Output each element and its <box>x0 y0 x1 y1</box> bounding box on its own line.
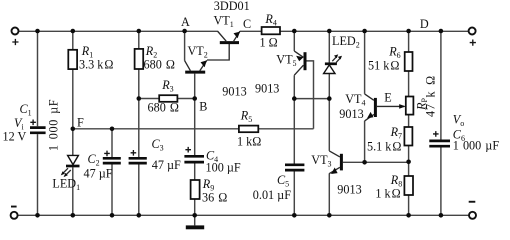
svg-text:1 000 µF: 1 000 µF <box>46 99 60 151</box>
svg-text:1 k Ω: 1 k Ω <box>375 187 400 201</box>
svg-text:LED2: LED2 <box>332 34 360 50</box>
svg-text:3DD01: 3DD01 <box>214 0 250 13</box>
svg-text:47 µF: 47 µF <box>84 166 113 180</box>
svg-text:1 Ω: 1 Ω <box>260 36 278 50</box>
svg-text:F: F <box>77 115 84 129</box>
svg-text:D: D <box>420 17 429 31</box>
svg-text:12 V: 12 V <box>3 130 27 144</box>
svg-text:0.01 µF: 0.01 µF <box>253 188 291 202</box>
svg-text:9013: 9013 <box>339 107 363 121</box>
svg-text:LED1: LED1 <box>52 176 80 192</box>
svg-text:47 µF: 47 µF <box>152 158 181 172</box>
svg-text:B: B <box>199 100 207 114</box>
svg-text:1 000 µF: 1 000 µF <box>453 138 500 152</box>
svg-text:1 kΩ: 1 kΩ <box>237 135 261 149</box>
svg-text:A: A <box>181 15 190 29</box>
svg-text:36 Ω: 36 Ω <box>202 191 227 205</box>
svg-text:3.3 k Ω: 3.3 k Ω <box>79 58 113 72</box>
svg-text:47 k Ω: 47 k Ω <box>423 75 437 117</box>
svg-text:9013: 9013 <box>222 85 246 99</box>
svg-text:E: E <box>384 91 391 105</box>
svg-text:680 Ω: 680 Ω <box>148 101 179 115</box>
svg-text:100 µF: 100 µF <box>206 161 241 175</box>
svg-text:5.1 k Ω: 5.1 k Ω <box>367 140 401 154</box>
svg-text:680 Ω: 680 Ω <box>144 58 175 72</box>
svg-text:9013: 9013 <box>337 183 361 197</box>
svg-text:51 k Ω: 51 k Ω <box>368 58 399 72</box>
svg-text:9013: 9013 <box>255 82 279 96</box>
svg-text:C: C <box>243 17 251 31</box>
